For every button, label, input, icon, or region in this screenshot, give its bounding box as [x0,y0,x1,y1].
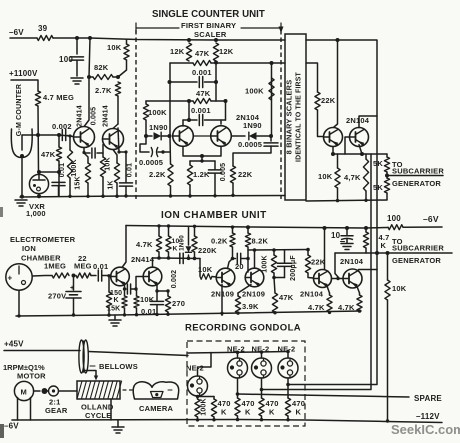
svg-text:+1100V: +1100V [9,69,38,78]
ground below 100 [71,77,83,79]
capacitor 0.0005 input [140,136,149,152]
svg-text:100K: 100K [201,398,208,416]
resistor 22K out [230,166,235,183]
node diode in left [144,134,148,138]
svg-text:22K: 22K [311,258,326,267]
svg-text:K: K [114,297,119,304]
svg-text:10K: 10K [198,265,213,274]
node rowA right [214,61,218,65]
node gm cathode [20,154,24,158]
node rg5 [286,418,289,421]
svg-text:1.2K: 1.2K [193,170,210,179]
node 10k2 bot [167,256,171,260]
wire ion ground rail [16,311,361,316]
node q1emit [82,151,85,154]
node row250 c [306,248,310,252]
wire chamber to rmeg [32,275,52,278]
wire sub2 to q12 base [335,253,339,278]
node j2 [88,36,92,40]
svg-text:10: 10 [331,231,341,240]
node 39k rail [236,311,239,314]
node r9 [231,194,234,197]
wire counter ground rail [20,196,285,198]
node 15k top [107,274,110,277]
node 47ka rail [328,311,331,314]
svg-text:100: 100 [59,55,73,64]
node rg1 [196,418,199,421]
svg-text:10K: 10K [140,295,155,304]
resistor 47K rowA [170,62,193,64]
node sub2 b [386,251,390,255]
capacitor 0.01 ion2 [156,291,158,301]
svg-text:2N414: 2N414 [131,255,155,264]
transistor Q1 2N414 [74,127,95,148]
resistor 10K q2 [100,157,105,177]
node row277 [272,276,276,280]
svg-text:GEAR: GEAR [45,406,68,415]
wire lamp4 bottom [287,378,289,398]
wire emit down [201,156,203,161]
node ri7 [166,313,169,316]
svg-text:47K: 47K [41,150,56,159]
svg-text:IDENTICAL TO THE FIRST: IDENTICAL TO THE FIRST [296,71,303,161]
resistor 1.2K [189,161,191,165]
svg-text:0.01: 0.01 [93,262,108,271]
transistor Q12 2N104 [343,269,362,288]
svg-text:12K: 12K [219,47,234,56]
node rail 220k [193,225,196,228]
node lamp3 j [260,388,264,392]
ground gondola [117,420,119,427]
resistor 47K ion [274,278,275,294]
svg-text:10K: 10K [392,284,407,293]
wire spare row [238,394,410,397]
node rail 10k-ion [167,224,170,227]
capacitor 0.0005 out [270,136,272,141]
svg-text:SINGLE COUNTER UNIT: SINGLE COUNTER UNIT [152,9,265,20]
node rg6 [386,419,389,422]
svg-text:0.002: 0.002 [171,270,178,289]
node rg2 [212,418,215,421]
capacitor 0.1 coupling [125,288,127,290]
node 47k rail [273,311,276,314]
lamp NE-2 4 [278,358,298,378]
svg-text:K: K [381,241,387,250]
svg-text:47K: 47K [279,293,294,302]
motor M [14,381,33,400]
resistor 4.7K ion [158,226,160,236]
node ri5 [135,313,138,316]
node r4 [115,195,118,198]
svg-text:5K: 5K [373,159,383,168]
wire ff left col [169,63,171,136]
resistor 10K ion2 [168,227,170,236]
bellows [79,340,84,373]
wire chamber bottom [18,290,20,314]
svg-text:20: 20 [235,262,244,271]
svg-text:0.01: 0.01 [126,163,133,177]
svg-text:0.001: 0.001 [191,106,211,115]
wire q11 emit [327,286,330,293]
wire q11 coll col [324,228,326,270]
svg-text:100K: 100K [71,159,78,177]
node 366 row154 [360,152,364,156]
wire q7 emit [124,284,126,289]
node ri2 [72,313,75,316]
svg-text:15K: 15K [107,306,120,313]
node lamp4 j [286,383,290,387]
capacitor 10uF [346,228,348,235]
wire lamp1 top [198,353,212,377]
svg-text:–6V: –6V [423,214,439,224]
svg-text:8.2K: 8.2K [252,237,269,246]
node r7 [188,194,191,197]
node anode-0.002 [57,133,61,137]
svg-text:ION: ION [22,244,36,253]
wire emit row 154 [333,153,387,155]
svg-text:100K: 100K [245,87,264,96]
resistor 10K top-left [126,40,128,45]
node rail 338 [336,38,340,42]
camera [133,382,179,399]
wire row 250 [248,249,308,252]
node q5e [331,152,335,156]
dashed gondola box [187,341,305,426]
svg-text:15K: 15K [75,176,82,189]
svg-text:FIRST BINARY: FIRST BINARY [181,21,236,30]
resistor 10K horiz [200,274,212,280]
svg-text:2N104: 2N104 [300,290,324,299]
battery 270V [73,276,75,291]
svg-text:M: M [21,388,27,397]
svg-text:K: K [221,408,227,417]
resistor 82K [89,76,93,78]
wire ff emitters [183,146,221,156]
diode 1N90 out [231,135,245,137]
svg-text:K: K [245,408,251,417]
svg-text:0.0005: 0.0005 [139,158,163,167]
capacitor 0.01 a [52,181,65,183]
node ri3 [107,313,110,316]
G-M counter tube [11,129,32,158]
wire bellows out [88,352,188,356]
node r3 [101,195,104,198]
wire q12 coll [359,270,378,271]
gear [42,388,48,394]
node rg3 [236,418,239,421]
node emit mid [200,154,204,158]
node rail 47sub [364,226,368,230]
resistor 4.7K ion a [329,293,331,295]
wire emit row q8 [157,290,168,292]
svg-text:GENERATOR: GENERATOR [392,179,441,188]
wire gondola rail [12,420,442,423]
scan mark 1 [0,207,3,217]
node q9e rail [220,312,223,315]
wire lamp3 top [261,352,263,358]
svg-text:82K: 82K [94,63,109,72]
wire ion top rail [126,226,388,229]
transistor Q2 2N414 [103,129,124,150]
wire col 225 down [225,101,227,120]
svg-text:100K: 100K [262,255,269,273]
resistor 100K out [269,78,274,100]
wire q12 emit [357,287,360,294]
resistor 470K lamp3 [259,398,264,416]
node row250 b [272,248,276,252]
wire out col up [271,63,273,136]
svg-text:22K: 22K [238,170,253,179]
wire q3ff top [182,120,184,126]
resistor 1MEG [52,273,69,278]
svg-text:47K: 47K [196,89,211,98]
capacitor 0.01 b [125,152,127,182]
wire row 277 [274,277,285,279]
svg-text:4,7K: 4,7K [344,173,361,182]
node tank top [200,159,203,162]
svg-text:270: 270 [172,299,185,308]
wire motor to gear [34,390,40,392]
wire gear to box [59,390,78,392]
svg-text:100K: 100K [148,108,167,117]
resistor 47K gm [58,135,60,147]
lamp NE-2 2 [228,358,248,378]
wire q2 collector couple [118,128,126,152]
node rg4 [260,418,263,421]
resistor 22K drive [315,92,320,110]
wire lamp4 top [287,352,289,359]
wire q5 emit [332,147,334,155]
svg-text:1MEG: 1MEG [44,262,66,271]
wire +45V [4,350,80,352]
transistor Q11 2N104 [314,270,332,288]
resistor 100K ion [273,250,275,255]
ion chamber tube [6,264,32,290]
node rowC left [187,99,191,103]
node r10 [336,199,339,202]
resistor 12K left [186,43,191,61]
node 82k right [116,75,120,79]
transistor Q9 2N109 [216,268,235,287]
svg-text:150: 150 [110,290,122,297]
wire base bridge [193,135,210,137]
capacitor 200uF [284,250,286,263]
svg-text:3.9K: 3.9K [242,302,259,311]
node ff base left [168,134,172,138]
wire 4.7MEG to anode [37,106,40,172]
wire top rail to scaler [53,38,285,40]
svg-text:100: 100 [387,214,401,223]
dash box-camera [123,389,126,391]
wire col 189 down [188,101,190,120]
svg-text:MOTOR: MOTOR [17,372,46,381]
olland cycle drum [77,381,120,399]
resistor 10K sub [387,253,389,280]
node r6 [169,194,172,197]
node ri6 [155,313,158,316]
node r11 [364,199,367,202]
resistor 4.7K sub [365,228,367,232]
transistor Q5 2N104 [324,128,343,147]
capacitor 0.001 rowB [169,81,197,83]
svg-text:8 BINARY SCALERS: 8 BINARY SCALERS [285,80,294,155]
node j1 [75,36,79,40]
wire vxr grid row [39,171,59,173]
svg-text:RECORDING GONDOLA: RECORDING GONDOLA [185,323,301,334]
wire bottom rail right [306,200,387,201]
wire row 258 [159,257,200,260]
svg-text:SCALER: SCALER [194,30,227,39]
svg-text:1,000: 1,000 [26,209,46,218]
svg-text:GENERATOR: GENERATOR [392,256,441,265]
svg-text:MEG: MEG [74,262,92,271]
wire to q8 base [136,277,143,290]
svg-text:K: K [173,246,178,253]
node out diode [269,134,273,138]
resistor 15K ion [108,276,110,292]
node 4.7meg-anode [36,133,40,137]
node 47k ion bot [157,256,161,260]
resistor 150K ion [124,289,126,296]
svg-text:G-M COUNTER: G-M COUNTER [16,84,23,136]
wire 02k to q9c [228,259,233,269]
wire gm anode row [22,135,70,136]
node lamp1 junc [196,395,199,398]
node meg mid [72,274,76,278]
ground 10uF [341,243,353,245]
wire feed B [288,253,377,385]
node 100k top [68,134,71,137]
resistor 5K upper [386,154,388,157]
svg-text:SeekIC.com: SeekIC.com [391,422,460,437]
svg-text:+45V: +45V [4,340,24,349]
wire subcarrier1 row [387,175,443,177]
wire q5c col [334,40,338,127]
svg-text:–112V: –112V [416,412,440,421]
svg-text:SUBCARRIER: SUBCARRIER [392,244,444,253]
node rail q9 [231,225,234,228]
svg-text:ELECTROMETER: ELECTROMETER [10,235,76,244]
resistor 22K ion [307,250,309,256]
wire q8 emit [156,284,158,291]
svg-text:270V: 270V [48,292,66,301]
node 8.2k col mid [246,257,250,261]
lamp NE-2 3 [252,358,272,378]
resistor 15K emit q1 [84,153,88,163]
svg-text:NE-2: NE-2 [186,364,204,373]
scan mark 2 [0,424,4,438]
svg-text:+: + [70,285,74,292]
svg-text:0.2K: 0.2K [211,237,228,246]
node 82k left [87,75,91,79]
node q12 base [336,277,339,280]
wire rail box to corner [306,40,377,253]
wire q1 collector col [85,38,91,126]
wire tank row [190,160,215,162]
wire q6 coll [359,116,377,128]
resistor 2.2K ff [169,136,172,164]
capacitor 0.01 ion [97,270,99,281]
svg-text:+: + [8,274,13,283]
svg-text:4.7K: 4.7K [136,240,153,249]
resistor 470K lamp2 [235,398,240,416]
wire lamp3 bottom [261,378,263,398]
svg-text:K: K [269,408,275,417]
wire lamp row [188,352,288,354]
node 02k bot [231,257,235,261]
svg-text:CYCLE: CYCLE [85,411,111,420]
node r5 [124,194,127,197]
node rail 10uF [345,226,349,230]
resistor 22MEG [76,273,91,278]
wire gm cathode down [21,157,23,196]
svg-text:4.7K: 4.7K [338,303,355,312]
svg-text:1K: 1K [108,180,115,189]
resistor 1K emit q2 [113,150,117,164]
wire box to rail [110,399,112,420]
node rail 8.2k [246,225,250,229]
node lamp2 spare [236,392,240,396]
box 8 binary scalers [285,34,306,200]
dashed separator left [135,30,137,199]
capacitor 20 [233,258,236,260]
resistor 100K q1 [69,136,71,150]
svg-text:0.0005: 0.0005 [238,140,262,149]
transistor Q3ff [173,126,194,147]
node 0.0005 right [161,150,164,153]
node c1 [117,150,120,153]
resistor 4.7K out [365,154,367,159]
node rowB left [168,80,172,84]
ground main left [15,199,27,201]
wire q6 emit [359,145,362,154]
label BELLOWS [90,365,95,367]
svg-text:1N90: 1N90 [243,121,262,130]
svg-text:BELLOWS: BELLOWS [99,362,138,371]
node 47k-vxr [57,170,61,174]
wire q4ff top [220,120,222,124]
node emit row a [155,289,158,292]
svg-text:0.005: 0.005 [220,163,227,182]
wire feed A [261,154,371,390]
resistor 100 ion [388,225,403,230]
wire motor leads [17,398,19,421]
wire lamp1 row [198,396,215,398]
svg-text:0.005: 0.005 [91,107,98,126]
node r2 [86,195,89,198]
wire row63 out [306,63,318,92]
wire subcarrier2 row [335,252,452,254]
resistor 470K lamp4 [285,398,290,416]
svg-text:2N104: 2N104 [340,257,364,266]
capacitor 0.002 ion [179,253,181,263]
svg-text:CAMERA: CAMERA [139,404,173,413]
wire lamp1 bottom [197,396,199,399]
svg-text:2.2K: 2.2K [149,170,166,179]
resistor 47K rowC [146,100,193,102]
wire +1100V feed [11,80,38,91]
wire q11-q12 base [332,278,344,280]
node c2 [124,150,127,153]
svg-text:200μμF: 200μμF [290,255,297,281]
node sub2 a [375,251,379,255]
svg-text:1N90: 1N90 [178,235,185,251]
node ri1 [17,314,20,317]
node emit row b [166,289,169,292]
svg-text:10K: 10K [318,172,333,181]
wire q10 emit [238,285,251,294]
wire q9 emit [221,285,223,316]
